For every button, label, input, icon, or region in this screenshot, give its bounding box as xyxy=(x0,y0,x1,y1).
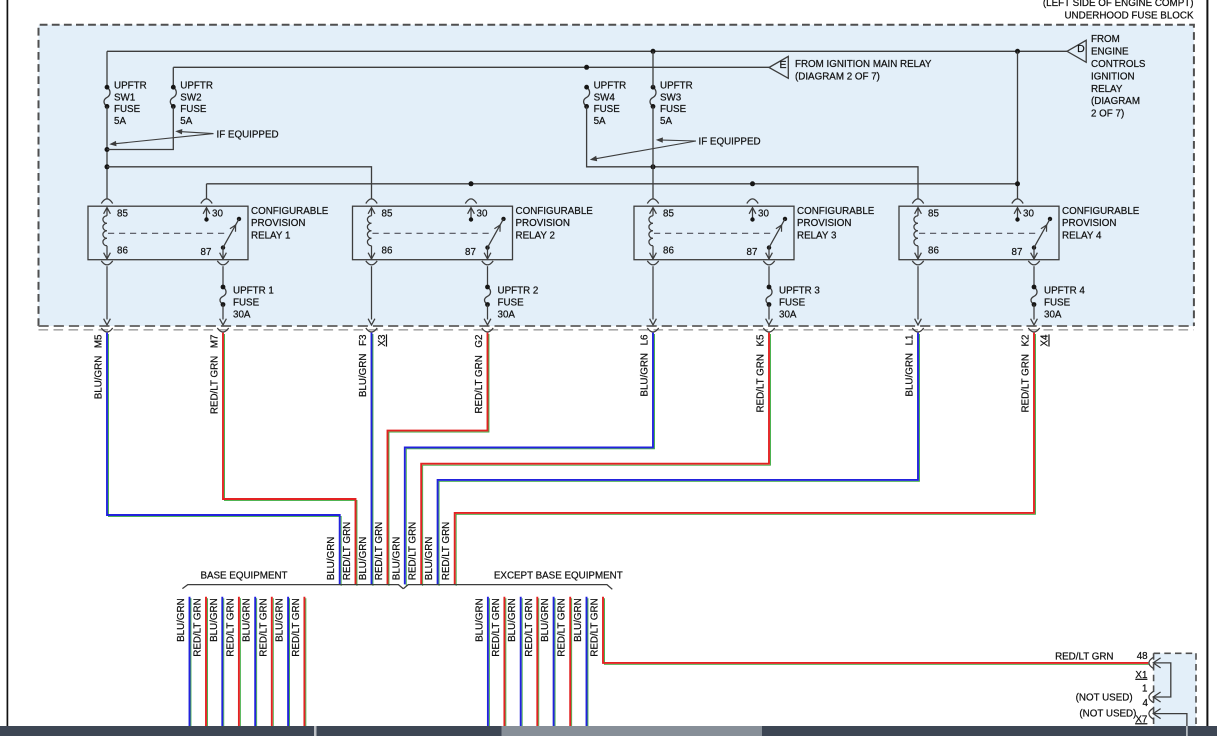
label wire G2 xyxy=(474,335,485,414)
svg-text:87: 87 xyxy=(201,247,212,258)
label EXCEPT BASE EQUIPMENT xyxy=(494,570,623,581)
svg-text:X1: X1 xyxy=(1135,670,1147,681)
node relay3 pin30 on bus4 xyxy=(750,181,755,186)
fuse UPFTR 2 30A xyxy=(484,285,490,307)
fuse UPFTR SW3 5A xyxy=(650,85,656,109)
wire BLU/GRN L6 route xyxy=(405,333,655,586)
connector cup at fuse block exit 3 xyxy=(366,328,377,332)
wire except base 3 BLU/GRN xyxy=(521,597,522,728)
svg-text:30: 30 xyxy=(212,208,223,219)
wire relay2 pin86 to block edge xyxy=(368,266,375,325)
label relay 1 xyxy=(251,206,329,241)
svg-text:48: 48 xyxy=(1137,651,1148,662)
wire except base 7 BLU/GRN xyxy=(587,597,588,728)
svg-text:RED/LT GRN: RED/LT GRN xyxy=(590,598,601,656)
relay 3 pin 85 label xyxy=(663,208,674,219)
svg-text:BLU/GRN: BLU/GRN xyxy=(391,537,402,581)
label mid wire 8 RED/LT GRN xyxy=(441,522,452,580)
off-page ref D FROM ENGINE CONTROLS IGNITION RELAY xyxy=(1067,40,1086,62)
svg-text:FUSE: FUSE xyxy=(114,104,141,115)
wire base equipment 8 RED/LT GRN xyxy=(304,597,305,728)
svg-text:FUSE: FUSE xyxy=(1044,297,1071,308)
label base equipment 1 xyxy=(176,598,187,642)
relay CONFIGURABLE PROVISION RELAY 3 xyxy=(634,199,794,265)
relay 1 pin 86 label xyxy=(117,245,128,256)
label UNDERHOOD FUSE BLOCK xyxy=(1064,11,1193,22)
wire RED/LT GRN M7 route xyxy=(223,333,357,586)
svg-text:RED/LT GRN K2: RED/LT GRN K2 xyxy=(1021,335,1032,413)
wire base equipment 6 RED/LT GRN xyxy=(272,597,273,728)
bottom bar segment 1 (dark) xyxy=(0,726,314,736)
wire RED/LT GRN K2 route xyxy=(455,333,1036,586)
wire bus4 (relay 30 pins) xyxy=(207,184,1018,199)
connector cup at fuse block exit 4 xyxy=(482,328,493,332)
svg-text:30A: 30A xyxy=(498,309,516,320)
svg-text:BLU/GRN L6: BLU/GRN L6 xyxy=(640,334,651,397)
svg-text:30: 30 xyxy=(758,208,769,219)
callout IF EQUIPPED (right) xyxy=(590,137,761,162)
label base equipment 2 xyxy=(193,598,204,656)
svg-text:CONFIGURABLE: CONFIGURABLE xyxy=(797,206,875,217)
label except base 1 xyxy=(474,598,485,642)
connector cup at fuse block exit 8 xyxy=(1028,328,1039,332)
relay 3 pin 86 label xyxy=(663,245,674,256)
label D ref text xyxy=(1091,34,1146,119)
svg-text:RED/LT GRN: RED/LT GRN xyxy=(1055,651,1113,662)
fuse UPFTR SW2 5A xyxy=(170,85,176,109)
label base equipment 6 xyxy=(258,598,269,656)
wire relay3 fuse to block edge xyxy=(766,305,773,325)
fuse UPFTR 3 30A xyxy=(766,285,772,307)
svg-text:UPFTR 3: UPFTR 3 xyxy=(779,285,820,296)
label except base 2 xyxy=(491,598,502,656)
brace BASE EQUIPMENT xyxy=(182,585,403,589)
label base equipment 3 xyxy=(209,598,220,642)
svg-text:(DIAGRAM: (DIAGRAM xyxy=(1091,96,1140,107)
svg-text:CONFIGURABLE: CONFIGURABLE xyxy=(516,206,594,217)
terminal pin 1 of X1 xyxy=(1149,691,1161,703)
relay 2 pin 30 label xyxy=(477,208,488,219)
svg-text:ENGINE: ENGINE xyxy=(1091,47,1129,58)
wire SW1 below fuse xyxy=(106,106,108,198)
svg-text:RED/LT GRN: RED/LT GRN xyxy=(225,598,236,656)
svg-text:BLU/GRN: BLU/GRN xyxy=(326,537,337,581)
wire except base 5 BLU/GRN xyxy=(554,597,555,728)
label mid wire 5 BLU/GRN xyxy=(391,537,402,581)
relay 1 pin 85 label xyxy=(117,208,128,219)
svg-text:RED/LT GRN: RED/LT GRN xyxy=(291,598,302,656)
node SW3 on bus1 xyxy=(651,49,656,54)
label wire L6 xyxy=(640,334,651,397)
wire except base 8 RED/LT GRN to X1 xyxy=(603,597,1150,665)
terminal pin 48 of X1 xyxy=(1149,657,1171,697)
terminal pin 4 of X7 xyxy=(1149,708,1187,726)
svg-text:RED/LT GRN: RED/LT GRN xyxy=(193,598,204,656)
label BASE EQUIPMENT xyxy=(200,570,287,581)
label relay 4 xyxy=(1062,206,1140,241)
connector block dashed box (X1/X7) xyxy=(1154,653,1196,736)
relay 4 pin 87 label xyxy=(1012,247,1023,258)
svg-text:SW2: SW2 xyxy=(180,92,201,103)
wire BLU/GRN F3 route xyxy=(372,333,373,586)
svg-text:5A: 5A xyxy=(180,116,192,127)
label (NOT USED) pin 1 xyxy=(1076,692,1133,703)
bottom bar divider xyxy=(314,726,317,736)
relay 4 pin 30 label xyxy=(1023,208,1034,219)
label base equipment 8 xyxy=(291,598,302,656)
label fuse UPFTR 3 30A xyxy=(779,285,820,320)
relay 3 pin 30 label xyxy=(758,208,769,219)
label (LEFT SIDE OF ENGINE COMPT) xyxy=(1043,0,1194,9)
svg-text:BLU/GRN F3: BLU/GRN F3 xyxy=(358,334,369,397)
label except base 3 xyxy=(507,598,518,642)
svg-text:SW4: SW4 xyxy=(594,92,616,103)
svg-text:FUSE: FUSE xyxy=(180,104,207,115)
svg-text:BLU/GRN: BLU/GRN xyxy=(209,598,220,642)
svg-text:IF EQUIPPED: IF EQUIPPED xyxy=(699,137,761,148)
svg-text:4: 4 xyxy=(1142,698,1148,709)
wire base equipment 7 BLU/GRN xyxy=(288,597,289,728)
relay CONFIGURABLE PROVISION RELAY 1 xyxy=(88,199,248,265)
svg-text:PROVISION: PROVISION xyxy=(797,218,851,229)
label pin 4 xyxy=(1142,698,1148,709)
wire relay4 pin87 to fuse xyxy=(1033,266,1035,287)
wire except base 6 RED/LT GRN xyxy=(570,597,571,728)
label fuse SW3 xyxy=(660,81,693,127)
wire relay1 pin87 to fuse xyxy=(222,266,224,287)
svg-text:BLU/GRN: BLU/GRN xyxy=(573,598,584,642)
wire relay2 fuse to block edge xyxy=(484,305,491,325)
wire except base 4 RED/LT GRN xyxy=(537,597,538,728)
label mid wire 3 BLU/GRN xyxy=(358,537,369,581)
label pin 1 xyxy=(1142,683,1147,694)
wire relay2 pin87 to fuse xyxy=(487,266,489,287)
label mid wire 1 BLU/GRN xyxy=(326,537,337,581)
wire relay4 pin86 to block edge xyxy=(915,266,922,325)
wire relay4 fuse to block edge xyxy=(1031,305,1038,325)
wire X7 over bar xyxy=(1186,726,1188,736)
wire SW1 fuse drop xyxy=(106,51,108,87)
label base equipment 7 xyxy=(275,598,286,642)
node relay2 pin30 on bus4 xyxy=(469,181,474,186)
node SW3 on bus3 xyxy=(651,164,656,169)
node SW1/bus3 junction xyxy=(105,164,110,169)
wire relay3 pin87 to fuse xyxy=(768,266,770,287)
svg-text:RELAY 2: RELAY 2 xyxy=(516,230,555,241)
svg-text:UPFTR: UPFTR xyxy=(660,81,693,92)
bottom bar segment 4 (dark) xyxy=(762,726,1217,736)
svg-text:SW3: SW3 xyxy=(660,92,682,103)
svg-text:UPFTR 1: UPFTR 1 xyxy=(233,285,274,296)
svg-text:CONTROLS: CONTROLS xyxy=(1091,59,1146,70)
svg-text:30A: 30A xyxy=(779,309,797,320)
relay 1 pin 30 label xyxy=(212,208,223,219)
wire except base 2 RED/LT GRN xyxy=(504,597,505,728)
node D vertical on bus1 xyxy=(1015,49,1020,54)
wire except base 1 BLU/GRN xyxy=(488,597,489,728)
fuse UPFTR 4 30A xyxy=(1031,285,1037,307)
wire bus from D (ignition feed, y=51) xyxy=(107,50,1067,52)
label wire L1 xyxy=(905,335,916,397)
node D feed on bus4 xyxy=(1015,181,1020,186)
svg-text:86: 86 xyxy=(928,245,939,256)
wire base equipment 2 RED/LT GRN xyxy=(206,597,207,728)
svg-text:D: D xyxy=(1077,43,1085,55)
svg-text:X3: X3 xyxy=(377,334,388,347)
wire BLU/GRN L1 route xyxy=(438,333,920,586)
svg-text:CONFIGURABLE: CONFIGURABLE xyxy=(251,206,329,217)
callout IF EQUIPPED (left) xyxy=(109,129,278,146)
label fuse SW4 xyxy=(594,81,627,127)
svg-text:30: 30 xyxy=(477,208,488,219)
label wire K2 xyxy=(1021,335,1032,413)
wire D vertical feed xyxy=(1017,51,1019,184)
label fuse SW2 xyxy=(180,81,213,127)
node SW1/SW2 junction xyxy=(105,147,110,152)
wire SW2 below fuse to SW1 xyxy=(107,106,173,149)
svg-text:85: 85 xyxy=(928,208,939,219)
bottom bar segment 2 (dark) xyxy=(317,726,502,736)
brace EXCEPT BASE EQUIPMENT xyxy=(403,585,612,590)
svg-text:SW1: SW1 xyxy=(114,92,135,103)
svg-text:BLU/GRN: BLU/GRN xyxy=(474,598,485,642)
connector cup at fuse block exit 2 xyxy=(217,328,228,332)
label base equipment 4 xyxy=(225,598,236,656)
svg-text:IGNITION: IGNITION xyxy=(1091,71,1135,82)
svg-text:FROM IGNITION MAIN RELAY: FROM IGNITION MAIN RELAY xyxy=(795,59,932,70)
svg-text:(DIAGRAM 2 OF 7): (DIAGRAM 2 OF 7) xyxy=(795,71,880,82)
relay 4 pin 86 label xyxy=(928,245,939,256)
fuse UPFTR SW1 5A xyxy=(104,85,110,109)
svg-text:RELAY 3: RELAY 3 xyxy=(797,230,837,241)
svg-text:RELAY: RELAY xyxy=(1091,84,1123,95)
svg-text:86: 86 xyxy=(117,245,128,256)
label mid wire 4 RED/LT GRN xyxy=(374,522,385,580)
fuse block connector row dashed line xyxy=(39,329,1194,331)
label except base 8 xyxy=(590,598,601,656)
svg-text:UPFTR: UPFTR xyxy=(114,81,147,92)
svg-text:CONFIGURABLE: CONFIGURABLE xyxy=(1062,206,1140,217)
wire bus from E (y=67) xyxy=(173,66,769,68)
svg-text:EXCEPT BASE EQUIPMENT: EXCEPT BASE EQUIPMENT xyxy=(494,570,623,581)
svg-text:E: E xyxy=(779,59,786,71)
svg-text:UPFTR 2: UPFTR 2 xyxy=(498,285,539,296)
label relay 3 xyxy=(797,206,875,241)
svg-text:RED/LT GRN: RED/LT GRN xyxy=(374,522,385,580)
svg-text:(NOT USED): (NOT USED) xyxy=(1076,692,1133,703)
label connector X7 xyxy=(1135,714,1147,725)
svg-text:BLU/GRN: BLU/GRN xyxy=(358,537,369,581)
svg-text:FROM: FROM xyxy=(1091,34,1120,45)
label fuse UPFTR 2 30A xyxy=(498,285,539,320)
label E ref text xyxy=(795,59,932,82)
svg-text:RED/LT GRN: RED/LT GRN xyxy=(557,598,568,656)
label connector X1 xyxy=(1135,670,1147,681)
wire bus3 segment A xyxy=(107,167,372,199)
connector cup at fuse block exit 1 xyxy=(101,328,112,332)
svg-text:RED/LT GRN: RED/LT GRN xyxy=(342,522,353,580)
svg-text:2 OF 7): 2 OF 7) xyxy=(1091,109,1124,120)
bottom bar segment 3 (light thumb) xyxy=(502,726,763,736)
connector cup at fuse block exit 7 xyxy=(912,328,923,332)
label fuse SW1 xyxy=(114,81,147,127)
left frame border line xyxy=(6,0,8,726)
label wire F3 xyxy=(358,334,369,397)
label relay 2 xyxy=(516,206,594,241)
right frame border line xyxy=(1206,0,1208,726)
label (NOT USED) pin 4 xyxy=(1079,709,1136,720)
svg-text:RED/LT GRN G2: RED/LT GRN G2 xyxy=(474,335,485,414)
label except base 4 xyxy=(524,598,535,656)
svg-text:85: 85 xyxy=(382,208,393,219)
wire base equipment 4 RED/LT GRN xyxy=(239,597,240,728)
label mid wire 7 BLU/GRN xyxy=(424,537,435,581)
svg-text:UPFTR: UPFTR xyxy=(180,81,213,92)
svg-text:X7: X7 xyxy=(1135,714,1147,725)
underhood fuse block dashed boundary xyxy=(39,25,1194,326)
svg-text:PROVISION: PROVISION xyxy=(251,218,305,229)
relay 2 pin 87 label xyxy=(465,247,476,258)
relay 2 pin 86 label xyxy=(382,245,393,256)
svg-text:RED/LT GRN: RED/LT GRN xyxy=(441,522,452,580)
svg-text:BLU/GRN: BLU/GRN xyxy=(176,598,187,642)
svg-text:RED/LT GRN: RED/LT GRN xyxy=(491,598,502,656)
svg-text:RELAY 4: RELAY 4 xyxy=(1062,230,1102,241)
label mid wire 6 RED/LT GRN xyxy=(408,522,419,580)
label connector X4 xyxy=(1040,334,1051,347)
svg-text:BLU/GRN: BLU/GRN xyxy=(275,598,286,642)
svg-text:RED/LT GRN M7: RED/LT GRN M7 xyxy=(210,335,221,415)
svg-text:87: 87 xyxy=(465,247,476,258)
svg-text:FUSE: FUSE xyxy=(660,104,687,115)
wire RED/LT GRN G2 route xyxy=(388,333,489,586)
label fuse UPFTR 4 30A xyxy=(1044,285,1085,320)
svg-text:30A: 30A xyxy=(1044,309,1062,320)
svg-text:86: 86 xyxy=(382,245,393,256)
wire RED/LT GRN K5 route xyxy=(421,333,770,586)
label base equipment 5 xyxy=(242,598,253,642)
label except base 7 xyxy=(573,598,584,642)
node SW4 on bus2 xyxy=(584,65,589,70)
wire SW4 below fuse, bus3 segment B xyxy=(587,106,918,198)
svg-text:RELAY 1: RELAY 1 xyxy=(251,230,290,241)
svg-text:FUSE: FUSE xyxy=(498,297,525,308)
relay 1 pin 87 label xyxy=(201,247,212,258)
label wire M7 xyxy=(210,335,221,415)
svg-text:85: 85 xyxy=(663,208,674,219)
wire SW3 column xyxy=(652,51,654,199)
label mid wire 2 RED/LT GRN xyxy=(342,522,353,580)
svg-text:UPFTR: UPFTR xyxy=(594,81,627,92)
svg-text:UNDERHOOD FUSE BLOCK: UNDERHOOD FUSE BLOCK xyxy=(1064,11,1193,22)
svg-text:PROVISION: PROVISION xyxy=(516,218,570,229)
svg-text:30A: 30A xyxy=(233,309,251,320)
svg-text:UPFTR 4: UPFTR 4 xyxy=(1044,285,1085,296)
label except base 5 xyxy=(540,598,551,642)
svg-text:BLU/GRN L1: BLU/GRN L1 xyxy=(905,335,916,397)
svg-text:X4: X4 xyxy=(1040,334,1051,347)
svg-text:FUSE: FUSE xyxy=(779,297,806,308)
relay 3 pin 87 label xyxy=(747,247,758,258)
relay CONFIGURABLE PROVISION RELAY 2 xyxy=(353,199,513,265)
svg-text:87: 87 xyxy=(1012,247,1023,258)
wire base equipment 3 BLU/GRN xyxy=(222,597,223,728)
svg-text:RED/LT GRN K5: RED/LT GRN K5 xyxy=(756,334,767,413)
svg-text:FUSE: FUSE xyxy=(594,104,621,115)
svg-text:30: 30 xyxy=(1023,208,1034,219)
svg-text:85: 85 xyxy=(117,208,128,219)
svg-text:FUSE: FUSE xyxy=(233,297,260,308)
wire SW2 fuse drop xyxy=(172,67,174,87)
wire BLU/GRN M5 route xyxy=(107,333,341,586)
svg-text:5A: 5A xyxy=(594,116,606,127)
svg-text:5A: 5A xyxy=(114,116,126,127)
relay 4 pin 85 label xyxy=(928,208,939,219)
svg-text:IF EQUIPPED: IF EQUIPPED xyxy=(217,129,279,140)
connector cup at fuse block exit 5 xyxy=(647,328,658,332)
relay 2 pin 85 label xyxy=(382,208,393,219)
label wire K5 xyxy=(756,334,767,413)
off-page ref E FROM IGNITION MAIN RELAY xyxy=(769,56,788,78)
wire relay1 pin86 to block edge xyxy=(104,266,111,325)
svg-text:1: 1 xyxy=(1142,683,1147,694)
relay CONFIGURABLE PROVISION RELAY 4 xyxy=(899,199,1059,265)
svg-text:RED/LT GRN: RED/LT GRN xyxy=(408,522,419,580)
svg-text:RED/LT GRN: RED/LT GRN xyxy=(258,598,269,656)
wire relay1 fuse to block edge xyxy=(220,305,227,325)
svg-text:BLU/GRN: BLU/GRN xyxy=(242,598,253,642)
svg-text:5A: 5A xyxy=(660,116,672,127)
connector cup at fuse block exit 6 xyxy=(763,328,774,332)
svg-text:BLU/GRN: BLU/GRN xyxy=(540,598,551,642)
label except base 6 xyxy=(557,598,568,656)
label pin 48 xyxy=(1137,651,1148,662)
fuse UPFTR 1 30A xyxy=(220,285,226,307)
wire base equipment 5 BLU/GRN xyxy=(255,597,256,728)
svg-text:PROVISION: PROVISION xyxy=(1062,218,1116,229)
svg-text:87: 87 xyxy=(747,247,758,258)
svg-text:BLU/GRN: BLU/GRN xyxy=(507,598,518,642)
wire relay3 pin86 to block edge xyxy=(650,266,657,325)
label wire M5 xyxy=(94,334,105,399)
label RED/LT GRN at X1 xyxy=(1055,651,1113,662)
svg-text:BASE EQUIPMENT: BASE EQUIPMENT xyxy=(200,570,287,581)
svg-text:(LEFT SIDE OF ENGINE COMPT): (LEFT SIDE OF ENGINE COMPT) xyxy=(1043,0,1194,9)
svg-text:86: 86 xyxy=(663,245,674,256)
fuse UPFTR SW4 5A xyxy=(584,85,590,109)
svg-text:BLU/GRN: BLU/GRN xyxy=(424,537,435,581)
label fuse UPFTR 1 30A xyxy=(233,285,274,320)
wire base equipment 1 BLU/GRN xyxy=(190,597,191,728)
svg-text:(NOT USED): (NOT USED) xyxy=(1079,709,1136,720)
svg-text:RED/LT GRN: RED/LT GRN xyxy=(524,598,535,656)
label connector X3 xyxy=(377,334,388,347)
svg-text:BLU/GRN M5: BLU/GRN M5 xyxy=(94,334,105,399)
